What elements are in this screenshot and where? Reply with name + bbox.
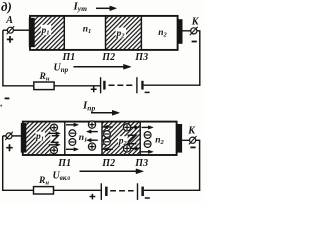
svg-text:П2: П2: [101, 158, 115, 169]
terminal K circle (top): [191, 28, 197, 34]
arrow Uвкл: [80, 169, 144, 174]
p2 region hatch (bottom structure): [102, 122, 139, 154]
svg-text:А: А: [5, 15, 13, 26]
carrier arrow right (n1 row1): [66, 123, 79, 127]
hole symbol ⊕ n1 right top: [88, 121, 95, 128]
carrier arrow right (n2 bottom): [141, 150, 154, 154]
terminal K slash (bottom): [189, 136, 197, 144]
wire battery to right vertical (top circuit): [144, 84, 201, 86]
hole symbol ⊕ p2 right bottom: [123, 145, 130, 152]
svg-text:К: К: [191, 17, 200, 28]
resistor Rн (top circuit): [34, 82, 54, 90]
svg-text:д): д): [1, 0, 12, 14]
battery cell 2 short plate (bottom circuit): [141, 187, 144, 196]
battery minus label (top circuit): [145, 91, 150, 93]
arrow Uпр: [74, 64, 132, 69]
svg-text:К: К: [187, 125, 196, 136]
structure 2 body outline: [23, 122, 177, 155]
anode electrode bar (top structure): [29, 18, 35, 47]
wire A left stub (bottom): [3, 135, 7, 137]
plus sign at anode (bottom): [6, 144, 12, 151]
carrier arrow right (p1 strip row3): [49, 143, 61, 147]
battery cell 1 long plate (top circuit): [100, 77, 102, 93]
wire resistor to battery (top circuit): [54, 85, 100, 87]
zigzag Z at П1: [52, 136, 59, 143]
junction П3 line (top structure): [140, 16, 142, 50]
p2 region hatch (top structure): [106, 17, 142, 50]
battery cell 2 long plate (top circuit): [136, 77, 138, 93]
structure 1 body outline: [30, 16, 178, 50]
p1 region hatch (bottom structure): [26, 122, 50, 154]
label p1 (bottom): [36, 132, 45, 142]
battery cell 1 short plate (top circuit): [103, 81, 105, 90]
battery minus label (bottom circuit): [145, 197, 150, 199]
wire resistor to battery (bottom circuit): [54, 189, 101, 191]
carrier arrow right (n1 row4): [66, 148, 79, 152]
resistor Rн (bottom circuit): [34, 187, 54, 194]
carrier arrow left (p2 row1): [103, 125, 113, 129]
wire bottom left (bottom circuit): [2, 189, 33, 191]
carrier arrow right (p1 strip row2): [49, 132, 61, 136]
dashed wire between cells (bottom circuit): [110, 190, 133, 192]
p1 region hatch (top structure): [35, 17, 65, 50]
wire A to electrode (bottom): [12, 135, 21, 137]
minus sign at cathode (top): [192, 41, 197, 43]
carrier arrow right (n2 row1): [142, 126, 154, 130]
junction П1 line (top structure): [63, 16, 65, 50]
svg-text:П3: П3: [134, 158, 148, 169]
label p1 (top): [41, 25, 51, 35]
hole symbol ⊕ in p1 strip bottom: [51, 147, 58, 154]
junction П2 line (top structure): [105, 16, 107, 50]
battery cell 1 long plate (bottom circuit): [100, 183, 102, 200]
carrier arrow left (p2 row4): [103, 148, 113, 152]
zigzag Z near П3: [128, 135, 137, 143]
hole symbol ⊕ p2 right top: [123, 124, 130, 131]
arrow Iпр: [91, 110, 120, 115]
battery plus label (top circuit): [91, 86, 97, 92]
cathode electrode bar (top structure): [177, 19, 183, 44]
electron symbol ⊖ p2 lower: [104, 138, 111, 145]
margin speck: [1, 105, 2, 107]
terminal A circle (bottom): [6, 133, 12, 139]
svg-text:П1: П1: [57, 158, 71, 169]
carrier arrow right (p2 row4 near П3): [131, 147, 139, 151]
electron symbol ⊖ n2 upper: [144, 132, 151, 139]
battery cell 1 short plate (bottom circuit): [105, 187, 108, 196]
dashed wire between cells (top circuit): [109, 84, 133, 86]
anode electrode bar (bottom structure): [21, 123, 27, 153]
wire A left stub (top): [3, 29, 8, 31]
wire A to electrode (top): [13, 29, 29, 31]
wire electrode to K (top): [183, 30, 201, 32]
wire left vertical (bottom circuit): [2, 136, 4, 191]
label p2 (bottom): [118, 136, 128, 146]
wire left vertical (top circuit): [2, 30, 4, 86]
terminal A circle (top): [7, 27, 13, 33]
terminal A slash: [7, 26, 15, 34]
wire right vertical (top circuit): [199, 31, 201, 86]
battery cell 2 long plate (bottom circuit): [137, 183, 139, 200]
battery plus label (bottom circuit): [90, 194, 96, 200]
wire battery to right vertical (bottom circuit): [144, 189, 200, 191]
svg-text:П1: П1: [62, 52, 76, 63]
battery cell 2 short plate (top circuit): [141, 81, 143, 90]
arrow Iут: [96, 6, 117, 11]
cathode electrode bar (bottom structure): [177, 124, 182, 153]
carrier arrow right (p2 row1 near П3): [131, 126, 139, 130]
wire electrode to K (bottom): [182, 139, 200, 141]
terminal A slash (bottom): [5, 132, 13, 140]
terminal K slash: [190, 27, 198, 35]
plus sign at anode (top): [7, 36, 13, 43]
margin dash: [5, 97, 10, 99]
hole symbol ⊕ n1 right bottom: [88, 143, 95, 150]
junction П2 line (bottom structure): [101, 121, 103, 155]
label p2 (top): [116, 28, 126, 39]
wire right vertical (bottom circuit): [199, 140, 201, 191]
minus sign at cathode (bottom): [190, 146, 195, 148]
svg-text:П3: П3: [134, 52, 148, 63]
hole symbol ⊕ in p1 strip top: [51, 124, 58, 131]
carrier arrow left (n1 row3): [86, 138, 97, 142]
terminal K circle (bottom): [190, 137, 196, 143]
carrier arrow left (n1 row2): [86, 130, 97, 134]
svg-text:П2: П2: [101, 52, 115, 63]
electron symbol ⊖ p2 upper: [104, 131, 111, 138]
junction П1 line (bottom structure): [64, 121, 66, 155]
junction П3 line (bottom structure): [139, 121, 141, 155]
electron symbol ⊖ in n1 upper: [69, 130, 76, 137]
electron symbol ⊖ n2 lower: [144, 141, 151, 148]
electron symbol ⊖ in n1 lower: [69, 139, 76, 146]
wire bottom left (top circuit): [2, 85, 34, 87]
